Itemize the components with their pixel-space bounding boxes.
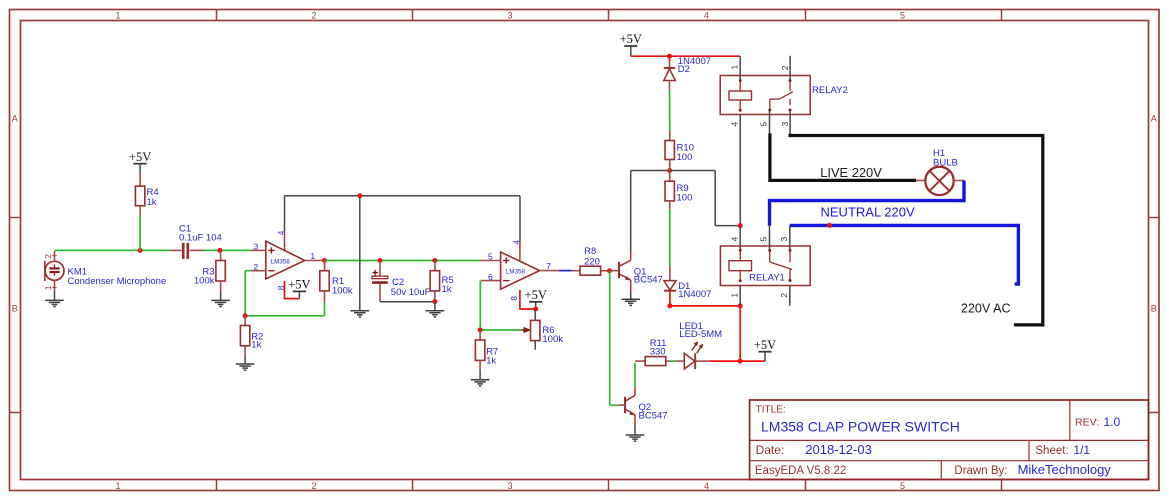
svg-text:1N4007: 1N4007 <box>678 289 711 300</box>
svg-text:1: 1 <box>43 285 53 290</box>
svg-text:RELAY2: RELAY2 <box>812 85 848 96</box>
relay1 pin 4 <box>729 226 740 251</box>
svg-text:NEUTRAL 220V: NEUTRAL 220V <box>821 205 915 220</box>
node R4/input junction <box>138 248 143 253</box>
+5V at U1.1 pin8 <box>285 278 311 299</box>
svg-text:5: 5 <box>759 237 769 242</box>
svg-text:7: 7 <box>546 261 551 271</box>
wire Q2 collector to R11 <box>635 361 645 386</box>
svg-text:1: 1 <box>115 10 120 20</box>
wire NEUTRAL 220V lower <box>790 225 1019 284</box>
ground at R2 <box>236 356 255 370</box>
ground at KM1 <box>45 291 64 307</box>
svg-text:2018-12-03: 2018-12-03 <box>805 442 872 457</box>
transistor Q2 BC547 <box>618 386 667 425</box>
relay1 pin 3 <box>779 225 790 250</box>
node Q1 base junction <box>607 268 612 273</box>
svg-text:LED-5MM: LED-5MM <box>679 329 722 340</box>
bulb H1 <box>916 148 964 195</box>
node D1 cathode <box>667 303 672 308</box>
relay2 pin 3 <box>780 111 790 135</box>
ground at R3 <box>211 291 230 306</box>
svg-text:B: B <box>12 304 18 314</box>
svg-text:TITLE:: TITLE: <box>756 405 786 416</box>
node relay1 pin4 junction <box>738 223 743 228</box>
resistor R9 100 <box>665 171 692 210</box>
transistor Q1 BC547 <box>610 251 663 291</box>
svg-text:+5V: +5V <box>525 288 547 302</box>
svg-text:2: 2 <box>779 293 789 298</box>
ground at R7 <box>471 370 490 386</box>
svg-text:EasyEDA V5.8.22: EasyEDA V5.8.22 <box>755 465 846 477</box>
diode D1 1N4007 <box>664 266 712 300</box>
wire NEUTRAL 220V upper <box>770 181 965 226</box>
svg-text:1: 1 <box>115 481 120 491</box>
ground at R5 <box>426 302 445 317</box>
resistor R4 1k <box>135 174 158 216</box>
svg-text:3: 3 <box>507 10 512 20</box>
resistor R10 100 <box>665 131 694 171</box>
node relay1 pin1 <box>738 303 743 308</box>
svg-text:3: 3 <box>779 237 789 242</box>
+5V at U1.2 pin8 <box>520 288 547 309</box>
svg-text:5: 5 <box>900 481 905 491</box>
wire D1 to relay1 pin1 net <box>670 291 740 361</box>
svg-text:B: B <box>1151 304 1157 314</box>
svg-text:1.0: 1.0 <box>1104 415 1121 429</box>
svg-text:BC547: BC547 <box>639 410 668 421</box>
svg-text:+5V: +5V <box>754 338 776 352</box>
wire 220V AC feed <box>790 134 1043 325</box>
node rail junction <box>357 193 362 198</box>
svg-text:4: 4 <box>729 122 739 127</box>
svg-text:RELAY1: RELAY1 <box>749 273 785 284</box>
ground rail above op-amps <box>285 196 521 311</box>
relay1 pin 1 <box>729 286 740 306</box>
svg-text:100: 100 <box>677 192 693 203</box>
resistor R7 1k <box>475 330 498 370</box>
relay1 pin 2 <box>779 286 790 306</box>
svg-text:220V AC: 220V AC <box>961 301 1011 315</box>
svg-text:4: 4 <box>704 10 709 20</box>
node R9/R10 junction <box>667 168 672 173</box>
svg-text:5: 5 <box>759 122 769 127</box>
diode D2 1N4007 <box>664 56 711 91</box>
svg-text:4: 4 <box>729 237 739 242</box>
svg-text:LM358: LM358 <box>506 269 526 276</box>
node R7/R6 junction <box>478 328 483 333</box>
svg-text:+5V: +5V <box>129 150 151 164</box>
svg-text:4: 4 <box>512 240 522 245</box>
title block <box>750 400 1149 480</box>
svg-text:Condenser Microphone: Condenser Microphone <box>68 276 167 287</box>
node neutral junction <box>827 223 832 228</box>
wire R11 to LED1 <box>670 360 676 362</box>
svg-text:1k: 1k <box>486 356 496 367</box>
label 220V AC <box>961 301 1011 315</box>
resistor R1 100k <box>320 261 353 303</box>
svg-text:Sheet:: Sheet: <box>1035 445 1068 457</box>
power +5V above R4 <box>129 150 151 174</box>
relay2 pin 5 <box>759 111 770 134</box>
svg-text:1: 1 <box>310 251 315 261</box>
svg-text:1: 1 <box>729 293 739 298</box>
svg-text:2: 2 <box>311 10 316 20</box>
potentiometer R6 100k <box>531 309 564 350</box>
svg-text:A: A <box>12 114 18 124</box>
label NEUTRAL 220V <box>821 205 915 220</box>
wire +5V to relay2 pin1 <box>631 55 740 57</box>
wire D2 to R10 <box>669 91 671 131</box>
LED LED1 LED-5MM <box>676 321 722 369</box>
wiper arrow into R6 <box>521 328 530 333</box>
svg-text:2: 2 <box>43 254 53 259</box>
wire Q1 collector to R9 <box>631 171 670 251</box>
svg-text:2: 2 <box>254 262 259 272</box>
svg-text:LM358: LM358 <box>271 259 291 266</box>
svg-text:4: 4 <box>704 481 709 491</box>
microphone KM1 <box>43 251 166 291</box>
resistor R11 330 <box>645 338 670 366</box>
svg-text:5: 5 <box>900 10 905 20</box>
svg-text:1k: 1k <box>147 197 157 208</box>
sheet text <box>1035 443 1090 457</box>
svg-text:+5V: +5V <box>288 278 310 292</box>
capacitor C2 50v 10uF <box>372 261 431 302</box>
svg-text:REV:: REV: <box>1075 417 1099 429</box>
svg-text:2: 2 <box>311 481 316 491</box>
power +5V top <box>620 32 642 56</box>
node R3 junction <box>217 248 222 253</box>
wire C2 to R5 ground net <box>380 301 435 303</box>
wire junction to relay coil net <box>670 171 741 226</box>
resistor R5 1k <box>430 261 453 302</box>
svg-text:1/1: 1/1 <box>1073 443 1090 457</box>
relay RELAY2 <box>720 76 848 115</box>
svg-text:LIVE 220V: LIVE 220V <box>820 165 882 180</box>
node R5 top <box>432 258 437 263</box>
wire LED1 to +5V <box>710 360 765 362</box>
wire U1.2 pin6 net <box>480 281 521 330</box>
svg-text:220: 220 <box>584 256 600 267</box>
svg-text:6: 6 <box>488 272 493 282</box>
svg-text:Date:: Date: <box>756 443 785 457</box>
resistor R8 220 <box>572 246 610 275</box>
capacitor C1 0.1uF <box>170 223 222 259</box>
node R5 bottom <box>432 299 437 304</box>
svg-text:1k: 1k <box>251 340 261 351</box>
svg-text:MikeTechnology: MikeTechnology <box>1018 462 1112 477</box>
svg-text:330: 330 <box>650 346 666 357</box>
node D2 junction <box>667 54 672 59</box>
wire U1.1 output net <box>325 260 481 262</box>
node R2 junction <box>243 313 248 318</box>
relay1 pin 5 <box>759 226 770 250</box>
wire LIVE 220V <box>770 133 916 180</box>
ground at Q1 <box>621 290 640 305</box>
wire R4 to input net <box>139 215 141 250</box>
svg-text:100k: 100k <box>194 275 215 286</box>
relay2 pin 1 <box>729 56 740 80</box>
svg-text:3: 3 <box>780 122 790 127</box>
svg-text:50v 10uF: 50v 10uF <box>391 287 431 298</box>
wire U1.1 pin2 feedback loop <box>245 271 324 316</box>
relay2 pin 4 <box>729 115 740 226</box>
wire KM1 to C1 <box>55 249 170 251</box>
svg-text:5: 5 <box>488 252 493 262</box>
wire U1.2 output <box>559 270 572 272</box>
svg-text:100k: 100k <box>542 334 563 345</box>
svg-text:BC547: BC547 <box>634 275 663 286</box>
svg-text:Drawn By:: Drawn By: <box>954 465 1007 477</box>
wire Q1 base to Q2 base <box>610 271 619 406</box>
svg-text:1k: 1k <box>442 284 452 295</box>
node C2 junction <box>378 258 383 263</box>
svg-text:BULB: BULB <box>933 157 958 168</box>
power +5V at LED <box>754 338 776 361</box>
relay2 pin 2 <box>780 56 790 81</box>
svg-text:A: A <box>1151 114 1157 124</box>
node +5V / R6 junction <box>533 307 538 312</box>
op-amp U1.2 LM358 <box>481 240 559 301</box>
relay RELAY1 <box>720 246 810 286</box>
node U1.1 output <box>322 258 327 263</box>
svg-text:0.1uF 104: 0.1uF 104 <box>179 232 222 243</box>
wire C1 to op-amp pin 3 <box>204 249 251 251</box>
svg-text:2: 2 <box>780 65 790 70</box>
ground at center rail <box>351 311 370 317</box>
svg-text:1: 1 <box>729 65 739 70</box>
resistor R2 1k <box>240 316 263 356</box>
ground at Q2 <box>626 425 645 441</box>
svg-text:100: 100 <box>677 152 693 163</box>
svg-text:D2: D2 <box>678 64 690 75</box>
version text <box>755 465 846 477</box>
op-amp U1.1 LM358 <box>251 230 325 290</box>
wire R9 to D1 <box>669 210 671 267</box>
date text <box>756 442 872 457</box>
svg-text:100k: 100k <box>332 286 353 297</box>
resistor R3 100k <box>194 250 225 291</box>
svg-text:8: 8 <box>509 296 519 301</box>
svg-text:3: 3 <box>254 242 259 252</box>
svg-text:LM358 CLAP POWER SWITCH: LM358 CLAP POWER SWITCH <box>761 418 960 434</box>
node LED +5V junction <box>738 359 743 364</box>
label LIVE 220V <box>820 165 882 180</box>
svg-text:+5V: +5V <box>620 32 642 46</box>
svg-text:3: 3 <box>507 481 512 491</box>
rev text <box>1075 415 1121 429</box>
title text <box>756 405 960 435</box>
drawn by text <box>954 462 1111 477</box>
